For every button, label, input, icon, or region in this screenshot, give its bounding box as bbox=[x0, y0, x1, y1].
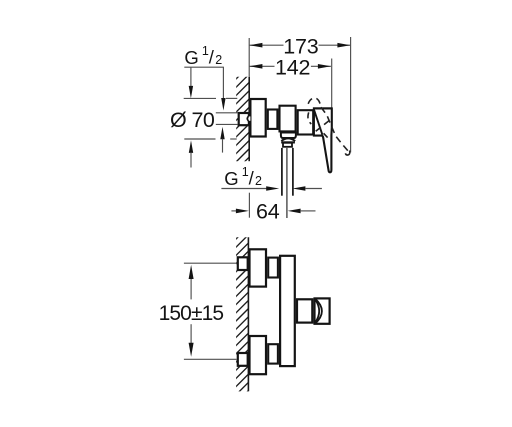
outlet band bbox=[281, 141, 295, 143]
svg-text:2: 2 bbox=[255, 174, 262, 188]
handle base (top view) bbox=[314, 108, 332, 172]
outlet pipe centre line bbox=[286, 148, 288, 218]
dashed lever tip bbox=[345, 150, 349, 155]
G1/2 leader to Ø70 top extension bbox=[190, 67, 192, 87]
knob crescent outer bbox=[315, 299, 322, 324]
union nut bottom (front view) bbox=[238, 353, 248, 366]
dashed lever outer edge bbox=[321, 107, 349, 152]
dashed handle base bottom edge bbox=[316, 121, 329, 132]
neck bottom (front view) bbox=[268, 344, 278, 363]
neck (top view) bbox=[268, 110, 278, 129]
dimension 142 line bbox=[249, 65, 331, 67]
G1/2 bottom right-pointing arrow bbox=[266, 186, 279, 191]
dashed handle top arc bbox=[308, 98, 321, 107]
dimension 64 line right bbox=[288, 209, 301, 214]
Ø70 bottom extension line bbox=[184, 138, 215, 140]
dashed handle left arc bbox=[308, 112, 311, 124]
handle top edge bbox=[313, 107, 332, 109]
extension line right 142 bbox=[331, 59, 333, 109]
dimension 150±15 line bbox=[190, 279, 192, 300]
svg-text:2: 2 bbox=[215, 53, 222, 67]
escutcheon top (front view) bbox=[250, 249, 267, 286]
handle cone diagonal bbox=[314, 110, 322, 135]
body (top view) bbox=[280, 106, 296, 132]
svg-text:150±15: 150±15 bbox=[159, 302, 224, 325]
dimension 173 line bbox=[249, 44, 350, 46]
svg-text:/: / bbox=[249, 168, 255, 189]
Ø70 top extension line bbox=[184, 97, 216, 99]
Ø70 lower arrow bbox=[189, 140, 193, 153]
150±15 up arrowhead bbox=[189, 265, 194, 279]
thread stub lines bbox=[216, 112, 238, 114]
body (front view) bbox=[280, 256, 295, 366]
svg-text:G: G bbox=[184, 47, 198, 68]
escutcheon bottom (front view) bbox=[250, 336, 267, 374]
knob cap (front view) bbox=[315, 298, 330, 323]
neck top (front view) bbox=[268, 258, 278, 278]
dimension 150±15 bottom extension bbox=[184, 358, 237, 360]
outlet pipe left edge bbox=[281, 148, 283, 196]
pipe end arc in nut bbox=[247, 116, 248, 121]
dimension 150±15 top extension bbox=[184, 262, 237, 264]
label G1/2 top underline bbox=[184, 66, 224, 68]
svg-text:142: 142 bbox=[275, 56, 310, 80]
svg-text:G: G bbox=[224, 168, 238, 189]
G1/2 bottom left-pointing arrow and line bbox=[292, 186, 305, 191]
extension line left (wall surface, above) bbox=[248, 38, 250, 77]
pipe slot in wall line bbox=[248, 116, 250, 120]
wall extension segment for 64 bbox=[248, 193, 250, 218]
wall surface line (top view) bbox=[248, 77, 250, 161]
escutcheon (top view) bbox=[250, 99, 265, 137]
150±15 down arrowhead bbox=[189, 343, 194, 357]
dashed lever inner edge segment bbox=[324, 133, 328, 137]
wall hatching (front view) bbox=[82, 236, 403, 393]
label G1/2 bottom underline bbox=[221, 188, 266, 190]
G1/2 leader to thread top bbox=[222, 67, 224, 98]
svg-text:/: / bbox=[209, 46, 215, 67]
dimension 64 line left bbox=[231, 210, 236, 212]
svg-text:Ø 70: Ø 70 bbox=[170, 108, 215, 132]
outlet dome bbox=[281, 138, 295, 141]
union nut (top view) bbox=[239, 113, 249, 125]
outlet collar bbox=[283, 143, 292, 147]
wall surface line (front view) bbox=[247, 237, 249, 391]
union nut top (front view) bbox=[238, 257, 248, 270]
knob crescent inner bbox=[315, 300, 319, 323]
knob base (front view) bbox=[297, 299, 312, 322]
dimension 142 arrowheads bbox=[249, 64, 262, 69]
outlet pipe right edge bbox=[292, 148, 294, 196]
thread lower arrow bbox=[220, 127, 224, 140]
wall hatching (top view) bbox=[153, 75, 331, 162]
svg-text:64: 64 bbox=[256, 200, 280, 224]
extension line right 173 bbox=[350, 37, 352, 152]
dimension 173 arrowheads bbox=[249, 43, 262, 48]
cap (top view) bbox=[298, 110, 314, 134]
outlet shoulder bbox=[281, 133, 296, 139]
